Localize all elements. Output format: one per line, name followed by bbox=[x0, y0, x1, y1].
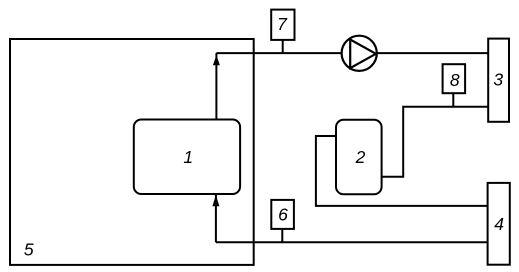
svg-text:8: 8 bbox=[450, 70, 460, 90]
svg-text:4: 4 bbox=[494, 214, 504, 234]
svg-text:2: 2 bbox=[355, 147, 366, 167]
svg-text:6: 6 bbox=[278, 205, 288, 225]
svg-text:1: 1 bbox=[183, 147, 193, 167]
svg-text:7: 7 bbox=[277, 14, 288, 34]
svg-text:5: 5 bbox=[24, 239, 34, 259]
svg-text:3: 3 bbox=[493, 70, 503, 90]
